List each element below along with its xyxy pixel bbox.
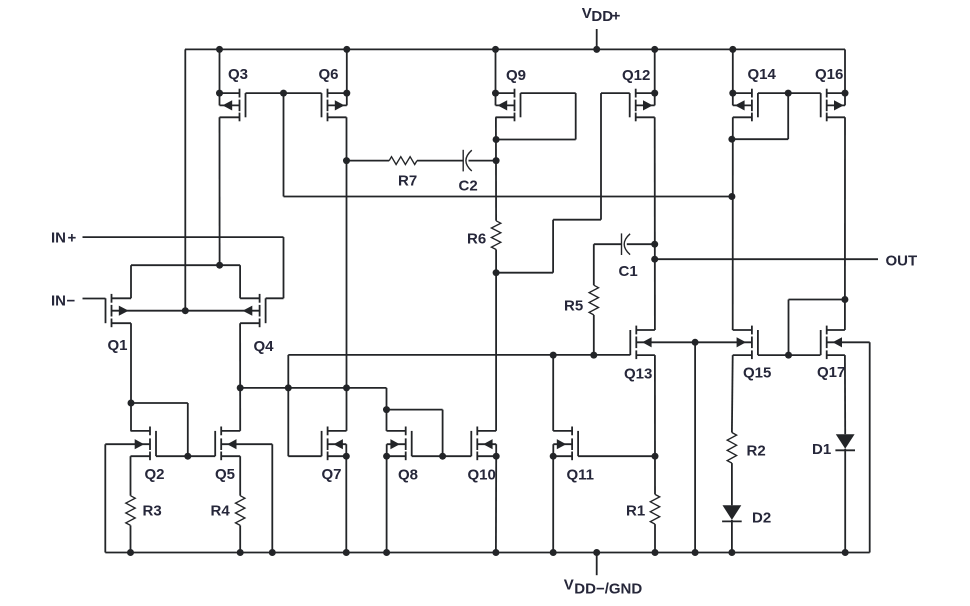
wire Q9 source line [496,92,515,94]
junction bottom rail x=731.9 [728,549,735,556]
resistor R1 [650,494,659,524]
junction Q17 drain node [841,296,848,303]
svg-text:Q8: Q8 [398,467,418,484]
junction Q10 source [493,453,500,460]
transistor Q11 gate bar [577,431,579,456]
junction bottom rail x=346.3 [343,549,350,556]
label IN+ wire [83,236,284,238]
transistor Q10 channel [476,427,478,436]
junction Q9 source [492,90,499,97]
junction Q2 drain node [128,400,135,407]
wire Q8 gate link [412,455,443,457]
resistor R4 [236,496,245,526]
wire Q15 drain line [733,329,752,331]
wire Q8 drain line [387,430,406,432]
junction top rail x=219.5 [216,46,223,53]
wire Q9 gate-drain loop [521,92,576,94]
wire Q5 bulk wire [221,443,272,445]
junction bottom rail x=386.6 [383,549,390,556]
junction top rail x=732.8 [729,46,736,53]
resistor R7 [389,157,417,165]
junction Q8 drain node [383,406,390,413]
resistor R5 [589,285,598,315]
junction R6 bottom [493,269,500,276]
wire Q13 drain line [636,329,655,331]
junction Q15/Q17 gate node [785,352,792,359]
wire D2 to rail [731,520,733,553]
wire gate node down [283,93,285,196]
junction bottom rail x=240.2 [237,549,244,556]
svg-text:R5: R5 [564,298,583,315]
transistor Q2 gate bar [155,431,157,456]
svg-text:D1: D1 [812,441,831,458]
resistor R3 [126,496,135,526]
junction top rail x=346.8 [343,46,350,53]
junction C1 right [651,241,658,248]
wire GND stub [596,553,598,576]
transistor Q11 bulk arrow [557,439,566,449]
transistor Q3 bulk arrow [223,100,233,110]
junction OUT branch [651,256,658,263]
junction Q11 source [550,453,557,460]
junction Q3 source [216,90,223,97]
wire Q10 source line [477,455,496,457]
wire Q13 source line [636,354,655,356]
junction bottom rail x=553.2 [550,549,557,556]
wire Q11 drain up [552,355,554,431]
junction gate node [280,90,287,97]
wire Q1 drain down to Q2 [130,323,132,431]
svg-text:Q5: Q5 [215,466,235,483]
junction Q9 drain loop [493,136,500,143]
svg-text:R6: R6 [467,231,486,248]
svg-text:DD−/GND: DD−/GND [574,581,642,598]
wire Q8 source to rail [386,456,388,552]
wire Q8 bulk tie [387,443,406,445]
junction Q2/Q5 gate node [184,453,191,460]
junction top rail x=495.5 [492,46,499,53]
transistor Q15 gate bar [757,330,759,355]
wire Q1 source line [112,297,132,299]
junction at mirror line [285,384,292,391]
wire Q15 gate link [758,354,821,356]
wire Q11 drain line [553,430,572,432]
wire Q12 source line [636,92,655,94]
wire Q2 bulk wire [105,443,150,445]
transistor Q17 channel [826,326,828,335]
svg-text:Q2: Q2 [145,466,165,483]
svg-text:Q1: Q1 [108,337,128,354]
transistor Q13 gate bar [629,330,631,355]
wire Q12 source to rail [654,49,656,93]
transistor Q8 gate bar [411,431,413,456]
transistor Q16 channel [826,89,828,98]
wire Q11 source to rail [552,456,554,552]
transistor Q3 channel [239,89,241,98]
svg-text:Q6: Q6 [319,66,339,83]
resistor R2 [727,433,736,464]
junction Q8 source [383,453,390,460]
wire link down [287,355,289,456]
transistor Q2 bulk arrow [135,439,144,449]
wire Q15 source down [731,355,734,432]
wire Q12 gate Z-path to R6 bottom [601,92,630,94]
net OUT wire [655,258,878,260]
junction C2 at Q9 drain [493,157,500,164]
wire Q7 drain line [328,430,347,432]
transistor Q15 bulk arrow [737,337,746,347]
wire Q10 bulk tie [477,443,496,445]
junction Q12 source [651,90,658,97]
svg-text:Q7: Q7 [322,466,342,483]
transistor Q13 bulk arrow [642,337,651,347]
wire R4 to rail [239,525,241,552]
wire Q6 source to rail [346,49,348,93]
diode D2 [723,505,742,520]
junction Q16 source [842,90,849,97]
svg-text:DD: DD [591,8,613,25]
junction Q6 source [343,90,350,97]
svg-text:Q16: Q16 [815,66,843,83]
net VDD+ top rail [185,48,845,50]
junction R7 branch [343,157,350,164]
svg-text:C2: C2 [459,178,478,195]
wire mirror line [240,387,386,389]
wire IN- to Q1 gate [83,298,106,300]
junction bottom rail x=596.7 [593,549,600,556]
transistor Q3 gate bar [245,93,247,117]
wire R2 to D2 [731,463,733,505]
wire Q6 bulk tie [346,93,348,105]
wire Q17 drain to gate node [789,299,845,301]
wire second-stage gate line [288,354,630,356]
wire mirror link down to Q8 [386,388,388,431]
wire Q17 source down to D1 [844,355,846,434]
junction bottom rail x=130.5 [127,549,134,556]
wire Q12 bulk tie [654,93,656,105]
transistor Q11 channel [571,427,573,436]
wire Q7 gate link [288,455,321,457]
wire Q10 source to rail [495,456,497,552]
wire Q17 source line [827,354,845,356]
transistor Q6 gate bar [321,93,323,117]
wire Q4 source up [239,265,241,298]
svg-text:Q10: Q10 [468,467,496,484]
wire Q1 source up [130,265,132,298]
junction R5 at gate line [590,352,597,359]
junction Q6 drain / mirror line [343,384,350,391]
junction Q14 gate node [785,90,792,97]
svg-text:+: + [612,7,621,24]
junction mirror line left [237,384,244,391]
transistor Q1 channel [111,294,113,303]
transistor Q8 bulk arrow [390,439,399,449]
diode D1 [836,434,855,449]
transistor Q14 channel [751,89,753,98]
transistor Q17 bulk arrow [833,337,842,347]
junction Q14 drain loop [728,136,735,143]
svg-text:D2: D2 [752,510,771,527]
transistor Q12 channel [635,89,637,98]
junction bottom rail x=845.2 [842,549,849,556]
wire Q5 drain line [221,430,240,432]
svg-text:Q13: Q13 [624,366,652,383]
transistor Q4 channel [259,294,261,303]
wire Q11 bulk tie [553,443,572,445]
transistor Q5 gate bar [214,431,216,456]
wire R7 left [347,160,390,162]
svg-text:V: V [582,5,592,22]
wire Q12 drain down to Q13 [636,116,655,118]
junction bottom rail x=655 [652,549,659,556]
wire Q2 source down [130,456,132,496]
transistor Q7 bulk arrow [334,439,343,449]
wire Q9 drain chain down (R6) to Q10 drain [496,116,515,118]
wire Q8 gate-drain loop [387,409,443,411]
svg-text:R7: R7 [398,173,417,190]
svg-text:IN: IN [51,293,66,310]
svg-text:Q3: Q3 [228,66,248,83]
wire Q3 drain [220,116,240,118]
wire bulk tap down to rail [694,342,696,552]
wire Q13 source down through R1 [654,355,656,494]
wire Q16 source line [827,92,845,94]
wire Q6 drain down to Q7 drain [328,116,347,118]
svg-text:IN: IN [51,229,66,246]
wire D1 to rail [844,449,846,553]
wire cascode gate line [284,196,732,198]
svg-text:Q12: Q12 [622,67,650,84]
junction Q11 drain tap [550,352,557,359]
wire Q4 gate link [266,297,284,299]
resistor R6 [491,221,500,250]
svg-text:C1: C1 [619,263,638,280]
wire C2 right [469,160,497,162]
svg-text:Q11: Q11 [567,467,595,484]
wire Q14 source line [733,92,752,94]
svg-text:Q17: Q17 [817,364,845,381]
junction bulk line [182,307,189,314]
wire R5 bottom [593,315,595,355]
svg-text:R4: R4 [211,503,231,520]
wire Q11 source line [553,455,572,457]
wire R7 to C2 [417,160,463,162]
transistor Q13 channel [635,326,637,335]
wire C1 right [627,243,655,245]
svg-text:Q14: Q14 [748,66,777,83]
transistor Q17 gate bar [820,330,822,355]
transistor Q6 bulk arrow [335,100,345,110]
wire Q7 bulk tie [328,443,347,445]
wire Q3 source to rail [219,49,221,93]
transistor Q4 gate bar [265,298,267,323]
wire Q14 source to rail [732,49,734,93]
wire Q4 source line [240,297,260,299]
transistor Q14 gate bar [757,93,759,117]
svg-text:−: − [67,293,76,310]
wire Q5 source line [221,455,240,457]
junction bulk-to-rail tap [692,339,699,346]
transistor Q1 bulk arrow [119,306,129,316]
wire IN+ down to Q4 gate [283,237,285,298]
junction bottom rail x=695.1 [692,549,699,556]
junction R1 top node [652,453,659,460]
wire Q11 gate link to R1 top [578,455,655,457]
wire Q14/Q16 gate link [758,92,821,94]
wire Q17 drain line [827,329,845,331]
transistor Q7 channel [327,427,329,436]
junction bottom rail x=272.3 [269,549,276,556]
wire Q17 bulk wire [827,341,870,343]
svg-text:+: + [68,229,77,246]
svg-text:Q9: Q9 [506,67,526,84]
wire Q15 source line [733,354,752,356]
junction top rail x=596.7 [593,46,600,53]
svg-text:Q15: Q15 [743,365,771,382]
wire Q5 source down [239,456,241,496]
transistor Q10 bulk arrow [483,439,492,449]
junction Q7 source [343,453,350,460]
junction top rail x=654.7 [651,46,658,53]
wire Q4 drain line [240,322,260,324]
svg-text:Q4: Q4 [254,338,275,355]
svg-text:R3: R3 [143,503,162,520]
transistor Q15 channel [751,326,753,335]
transistor Q2 channel [149,427,151,436]
wire Q8/Q10 gate link [443,455,472,457]
transistor Q9 channel [514,89,516,98]
wire Q2 gate-drain loop [131,402,188,404]
transistor Q5 bulk arrow [227,439,236,449]
wire Q3 bulk tie [219,93,221,105]
wire R1 to rail [654,524,656,552]
wire R3 to rail [130,525,132,552]
wire Q10 drain line [477,430,496,432]
transistor Q9 gate bar [520,93,522,117]
svg-text:OUT: OUT [886,253,918,270]
wire Q6 source line [328,92,347,94]
transistor Q14 bulk arrow [735,100,745,110]
junction bottom rail x=495.9 [492,549,499,556]
wire Q14 drain down to Q15 [733,116,752,118]
wire Q7 source to rail [345,456,347,552]
transistor Q16 gate bar [820,93,822,117]
wire Q8 source line [387,455,406,457]
wire Q3 source line [220,92,240,94]
transistor Q6 channel [327,89,329,98]
net VDD-/GND bottom rail [105,552,869,554]
wire VDD to Q1/Q4 bulk [184,49,186,310]
wire Q3/Q6 gate link [246,92,322,94]
wire Q16 bulk tie [844,93,846,105]
transistor Q12 gate bar [629,93,631,117]
wire rail corner to Q16 source [844,49,846,93]
svg-text:R2: R2 [747,443,766,460]
junction Q8 gate node [439,453,446,460]
wire Q2 source line [131,455,151,457]
junction Q14 source [729,90,736,97]
capacitor C2 [463,150,472,172]
wire Q2 drain line [131,430,151,432]
wire Q1/Q4 bulk line [112,310,260,312]
wire tail line [131,264,240,266]
svg-text:V: V [564,577,574,594]
wire Q4 drain down to Q5 [239,323,241,431]
transistor Q5 channel [220,427,222,436]
junction at Q14 drain [728,193,735,200]
wire Q13 bulk line to Q15 [636,341,752,343]
transistor Q10 gate bar [470,431,472,456]
wire Q1 drain line [112,322,132,324]
transistor Q7 gate bar [321,431,323,456]
transistor Q12 bulk arrow [643,100,653,110]
transistor Q8 channel [405,427,407,436]
wire Q16 drain down to Q17 [827,116,845,118]
transistor Q16 bulk arrow [834,100,844,110]
junction tail at Q3 drain [216,262,223,269]
wire Q7 source line [328,455,347,457]
transistor Q4 bulk arrow [243,306,253,316]
wire C1 left + R5 top [593,244,595,285]
wire Q9 source to rail [495,49,497,93]
wire VDD+ stub [596,29,598,49]
transistor Q9 bulk arrow [498,100,508,110]
wire Q9 bulk tie [495,93,497,105]
wire R6 bottom down [495,250,497,431]
transistor Q1 gate bar [105,298,107,323]
svg-text:R1: R1 [626,503,645,520]
capacitor C1 [622,233,631,255]
wire Q2/Q5 gate link [156,455,215,457]
wire Q14 gate-drain loop [787,93,789,139]
wire Q14 bulk tie [732,93,734,105]
